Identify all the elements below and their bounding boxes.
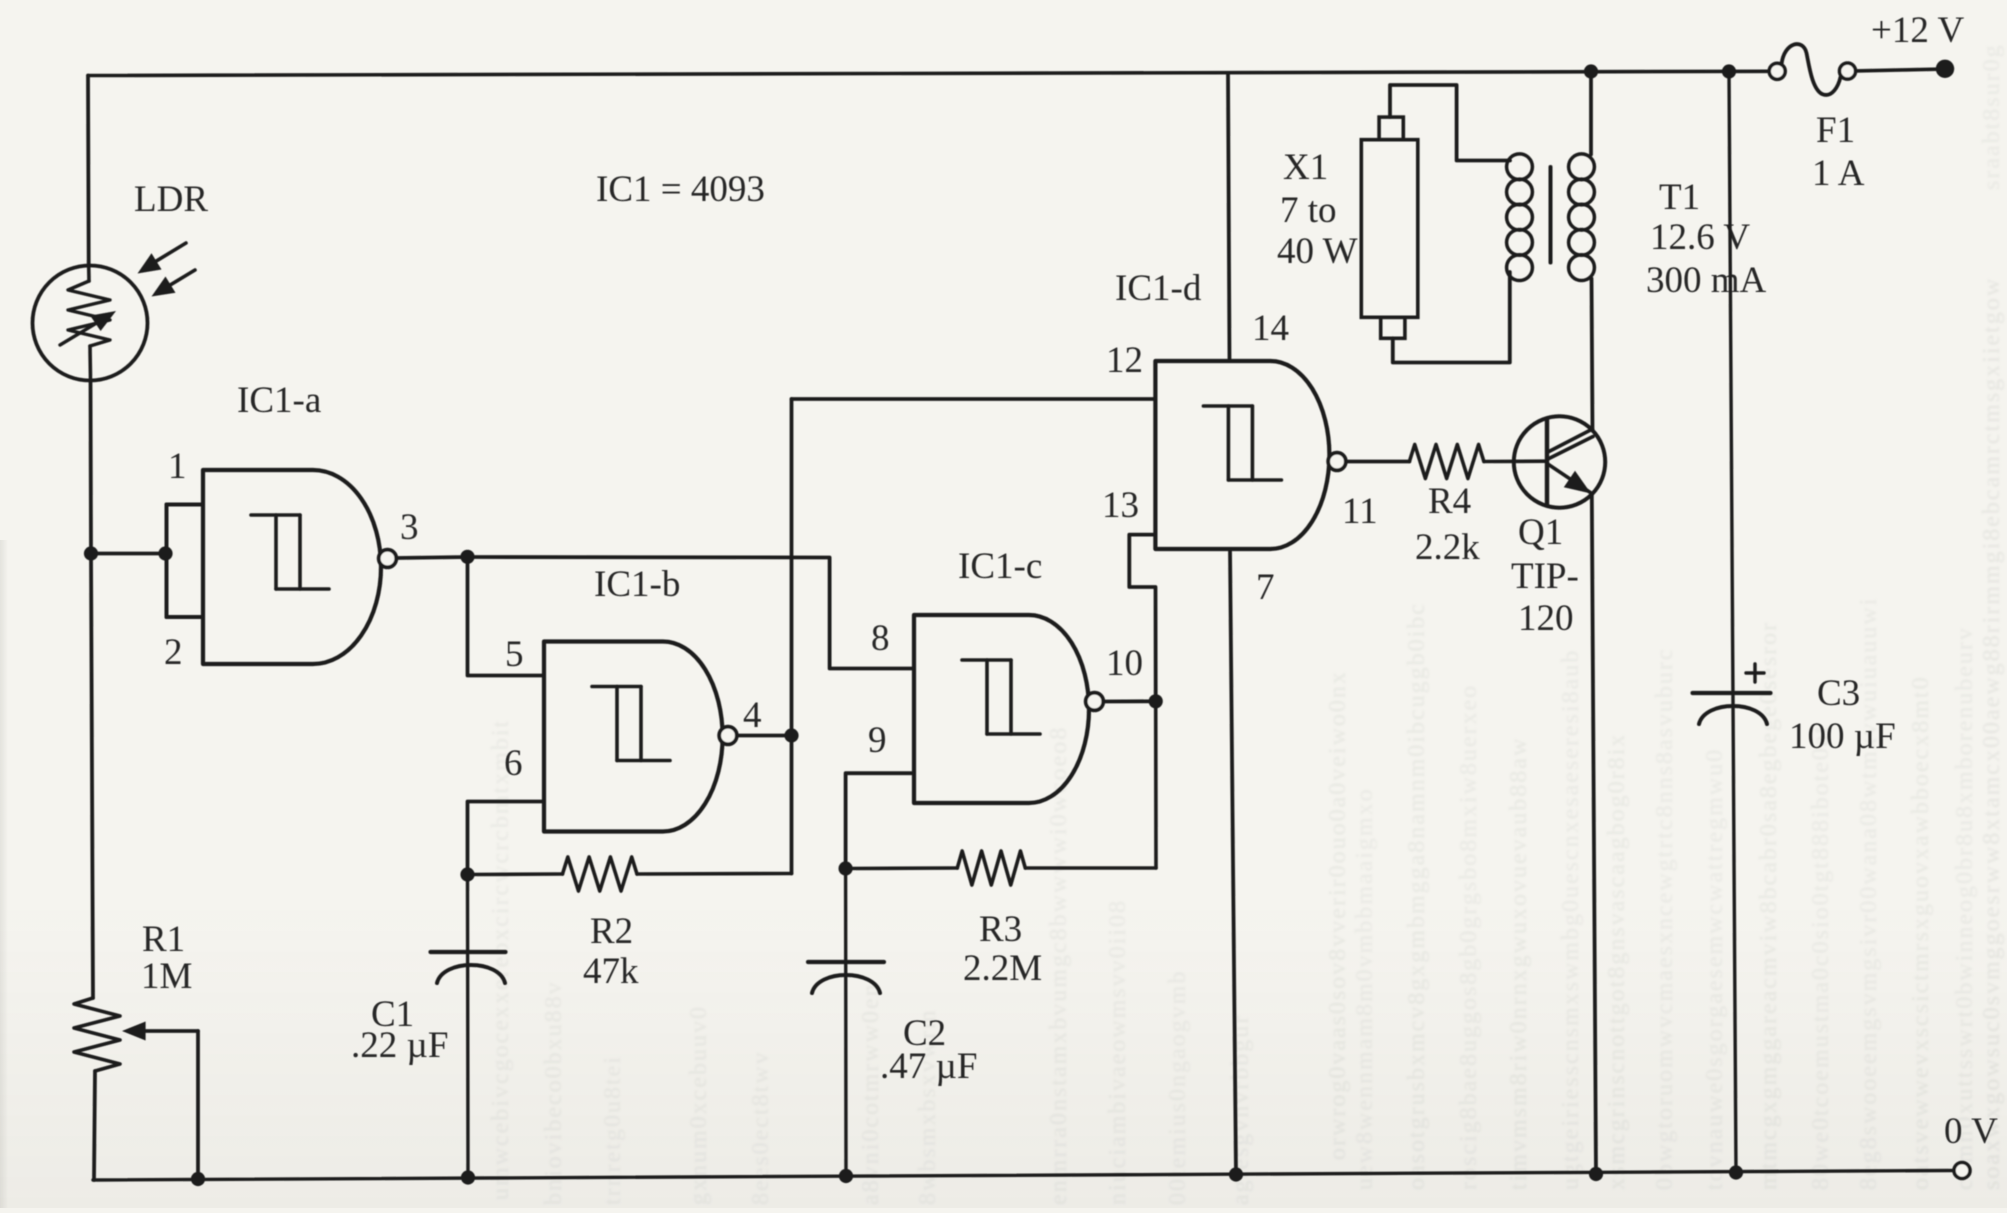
label R1 — [142, 919, 185, 960]
wire Q1 emitter to 0V rail — [1592, 494, 1596, 1175]
junction on IC1-a bracket — [158, 546, 172, 560]
label R4 — [1428, 481, 1471, 522]
svg-text:R4: R4 — [1428, 481, 1471, 522]
pin 8 label — [871, 618, 890, 659]
label IC1-a — [237, 380, 321, 421]
label 7 to — [1280, 190, 1337, 231]
svg-text:X1: X1 — [1283, 147, 1328, 188]
svg-text:40 W: 40 W — [1277, 231, 1358, 272]
page tone shading — [0, 900, 2007, 1208]
transformer T1 core — [1549, 167, 1553, 263]
wire top rail fuse-to-terminal section — [1856, 69, 1938, 71]
LDR light arrow 2 — [152, 270, 196, 297]
label C3 — [1817, 673, 1860, 714]
wire R1 top lead — [91, 554, 93, 999]
IC1-d output bubble — [1328, 453, 1346, 471]
node T1 secondary top rail junction — [1584, 64, 1598, 78]
capacitor C2 — [808, 869, 884, 1177]
svg-text:5: 5 — [505, 634, 524, 675]
svg-text:47k: 47k — [583, 951, 639, 992]
svg-text:1: 1 — [168, 446, 187, 487]
wire pin 4 output — [737, 734, 792, 738]
label 2.2M — [963, 948, 1042, 989]
wire pin 11 to R4 — [1346, 460, 1410, 464]
node C1 ground junction — [461, 1170, 475, 1184]
label LDR — [134, 179, 208, 220]
svg-text:2: 2 — [164, 632, 183, 673]
page left edge shading — [0, 540, 8, 1208]
node R3/C2/pin9 junction — [839, 861, 853, 875]
NAND gate IC1-b — [544, 642, 723, 832]
wire T1 primary top lead — [1390, 85, 1510, 161]
pin 9 label — [868, 720, 887, 761]
svg-text:13: 13 — [1102, 485, 1139, 526]
capacitor C1 — [431, 875, 506, 1178]
wire pin 7 to 0V rail — [1230, 549, 1236, 1175]
lamp X1 envelope — [1361, 117, 1418, 338]
capacitor C3 — [1693, 72, 1771, 1173]
wire 0V bottom rail — [93, 1171, 1954, 1181]
node pin4/pin12 junction — [784, 728, 798, 742]
resistor R3 — [846, 701, 1156, 885]
wire T1 primary bottom lead — [1393, 272, 1510, 363]
label 47k — [583, 951, 639, 992]
label IC1 = 4093 — [596, 169, 765, 210]
fuse F1 — [1769, 44, 1855, 95]
wire pin 10 output — [1103, 699, 1155, 703]
IC1-c output bubble — [1086, 693, 1104, 711]
svg-text:7: 7 — [1256, 567, 1275, 608]
svg-text:.47 µF: .47 µF — [880, 1046, 977, 1087]
wire pin 13 jog — [1129, 535, 1155, 702]
wire pin 9 connection — [846, 773, 914, 868]
label .22 uF — [351, 1025, 448, 1066]
IC1-a input bracket pins 1-2 — [167, 505, 204, 618]
pin 12 label — [1106, 340, 1143, 381]
svg-text:100 µF: 100 µF — [1789, 716, 1896, 757]
svg-text:IC1 = 4093: IC1 = 4093 — [596, 169, 765, 210]
transformer T1 secondary winding — [1569, 154, 1595, 281]
label 0 V — [1944, 1111, 1998, 1152]
svg-text:Q1: Q1 — [1518, 512, 1563, 553]
label 1M — [141, 956, 192, 997]
wire pin 5 connection — [468, 557, 545, 676]
label R2 — [590, 911, 633, 952]
svg-text:2.2k: 2.2k — [1415, 527, 1480, 568]
wire pin 14 to +12V rail — [1228, 74, 1230, 362]
wire T1 secondary top to rail — [1589, 72, 1593, 155]
svg-text:1M: 1M — [141, 956, 192, 997]
node C2 ground junction — [839, 1169, 853, 1183]
C3 polarity plus sign — [1746, 664, 1764, 682]
node pin3/pin5 junction — [460, 550, 474, 564]
svg-text:IC1-c: IC1-c — [958, 546, 1042, 587]
label 12.6 V — [1650, 217, 1750, 258]
wire +12V top supply rail (left section) — [88, 71, 1770, 75]
svg-text:R1: R1 — [142, 919, 185, 960]
resistor R2 — [468, 857, 792, 891]
label R3 — [979, 909, 1022, 950]
pin 5 label — [505, 634, 524, 675]
svg-text:300 mA: 300 mA — [1646, 260, 1767, 301]
node LDR/R1/IC1-a junction — [84, 546, 98, 560]
R1 wiper arrow — [122, 1022, 198, 1180]
svg-text:12: 12 — [1106, 340, 1143, 381]
pin 2 label — [164, 632, 183, 673]
label 300 mA — [1646, 260, 1767, 301]
svg-text:+12 V: +12 V — [1871, 10, 1964, 51]
wire Q1 collector to T1 — [1592, 279, 1593, 431]
node C3 top rail junction — [1722, 64, 1736, 78]
svg-text:LDR: LDR — [134, 179, 208, 220]
label 2.2k — [1415, 527, 1480, 568]
label IC1-b — [594, 564, 680, 605]
wire input node to IC1-a bracket — [91, 552, 167, 556]
wire pin 12 horizontal — [792, 397, 1156, 401]
transformer T1 primary winding — [1507, 154, 1533, 281]
+12V terminal — [1936, 60, 1954, 78]
pin 1 label — [168, 446, 187, 487]
label 40 W — [1277, 231, 1358, 272]
transistor Q1 — [1514, 416, 1605, 507]
svg-text:10: 10 — [1106, 643, 1143, 684]
label 1 A — [1812, 153, 1865, 194]
pin 6 label — [504, 743, 523, 784]
label IC1-d — [1115, 268, 1202, 309]
node pin10/pin13/R3 junction — [1149, 694, 1163, 708]
photoresistor LDR — [33, 266, 148, 381]
label IC1-c — [958, 546, 1042, 587]
label Q1 — [1518, 512, 1563, 553]
svg-text:7 to: 7 to — [1280, 190, 1337, 231]
IC1-a output bubble — [379, 550, 397, 568]
svg-text:120: 120 — [1518, 598, 1574, 639]
label TIP- — [1511, 556, 1579, 597]
label T1 — [1659, 177, 1700, 218]
svg-text:2.2M: 2.2M — [963, 948, 1042, 989]
svg-text:14: 14 — [1252, 308, 1289, 349]
label C1 — [371, 994, 414, 1035]
node pin 7 ground junction — [1229, 1167, 1243, 1181]
NAND gate IC1-c — [914, 615, 1089, 803]
svg-text:C3: C3 — [1817, 673, 1860, 714]
svg-text:IC1-d: IC1-d — [1115, 268, 1202, 309]
page bleed-through texture — [488, 43, 2005, 1205]
pin 7 label — [1256, 567, 1275, 608]
label .47 uF — [880, 1046, 977, 1087]
svg-text:IC1-a: IC1-a — [237, 380, 321, 421]
pin 13 label — [1102, 485, 1139, 526]
svg-text:.22 µF: .22 µF — [351, 1025, 448, 1066]
LDR light arrow 1 — [138, 243, 187, 274]
node R1 wiper ground junction — [191, 1172, 205, 1186]
svg-text:1 A: 1 A — [1812, 153, 1865, 194]
resistor R4 — [1409, 445, 1547, 479]
pin 14 label — [1252, 308, 1289, 349]
label X1 — [1283, 147, 1328, 188]
svg-text:TIP-: TIP- — [1511, 556, 1579, 597]
wire pin 6 connection — [468, 802, 545, 875]
wire pin 12 riser — [790, 399, 794, 874]
potentiometer R1 — [74, 998, 120, 1180]
pin 3 label — [400, 507, 419, 548]
svg-text:R2: R2 — [590, 911, 633, 952]
label 120 — [1518, 598, 1574, 639]
svg-text:T1: T1 — [1659, 177, 1700, 218]
op-amp-style NAND gate IC1-a — [203, 470, 381, 664]
svg-text:8: 8 — [871, 618, 890, 659]
svg-text:R3: R3 — [979, 909, 1022, 950]
0V terminal — [1954, 1163, 1970, 1179]
pin 4 label — [743, 695, 762, 736]
svg-text:3: 3 — [400, 507, 419, 548]
node Q1 emitter ground junction — [1589, 1167, 1603, 1181]
label +12 V — [1871, 10, 1964, 51]
wire LDR to input node — [89, 381, 93, 554]
IC1-b output bubble — [719, 727, 737, 745]
svg-text:4: 4 — [743, 695, 762, 736]
svg-text:11: 11 — [1342, 491, 1378, 532]
pin 10 label — [1106, 643, 1143, 684]
label 100 uF — [1789, 716, 1896, 757]
wire pin 3 net — [396, 557, 914, 669]
label C2 — [903, 1013, 946, 1054]
node R2/C1/pin6 junction — [460, 867, 474, 881]
svg-text:0 V: 0 V — [1944, 1111, 1998, 1152]
svg-text:6: 6 — [504, 743, 523, 784]
svg-text:sraabt8sur0g: sraabt8sur0g — [1979, 43, 2005, 190]
svg-text:IC1-b: IC1-b — [594, 564, 680, 605]
svg-text:12.6 V: 12.6 V — [1650, 217, 1750, 258]
label F1 — [1816, 110, 1855, 151]
node C3 ground junction — [1729, 1165, 1743, 1179]
pin 11 label — [1342, 491, 1378, 532]
svg-text:9: 9 — [868, 720, 887, 761]
svg-text:F1: F1 — [1816, 110, 1855, 151]
NAND gate IC1-d — [1155, 361, 1329, 549]
wire from +12V rail down to LDR — [86, 76, 90, 267]
